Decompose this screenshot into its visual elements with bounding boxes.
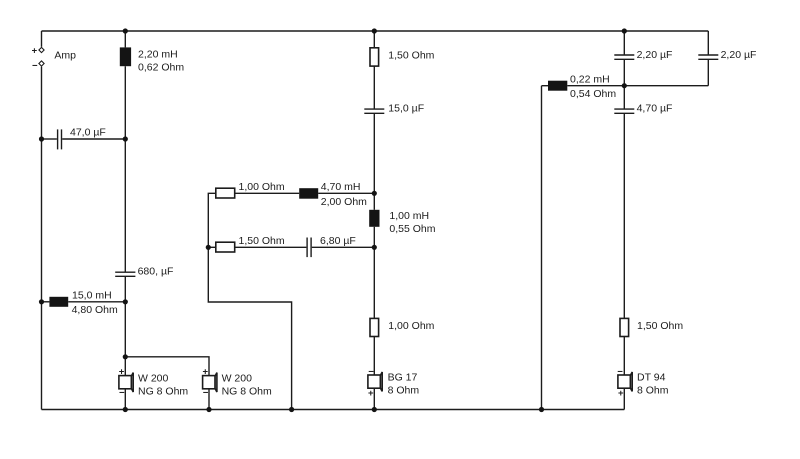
- svg-text:−: −: [203, 387, 209, 398]
- svg-text:−: −: [617, 366, 623, 377]
- svg-text:1,50 Ohm: 1,50 Ohm: [239, 235, 285, 247]
- svg-text:W 200: W 200: [222, 372, 253, 384]
- svg-text:0,54 Ohm: 0,54 Ohm: [570, 88, 616, 100]
- svg-text:NG 8 Ohm: NG 8 Ohm: [222, 385, 272, 397]
- svg-text:6,80 µF: 6,80 µF: [320, 235, 356, 247]
- svg-text:+: +: [618, 388, 624, 399]
- svg-text:+: +: [368, 388, 374, 399]
- svg-text:0,22 mH: 0,22 mH: [570, 74, 610, 86]
- svg-text:2,20 mH: 2,20 mH: [138, 48, 178, 60]
- svg-text:8 Ohm: 8 Ohm: [637, 385, 669, 397]
- svg-text:1,00 mH: 1,00 mH: [389, 210, 429, 222]
- svg-text:+: +: [119, 367, 125, 378]
- svg-text:15,0 mH: 15,0 mH: [72, 289, 112, 301]
- svg-text:47,0 µF: 47,0 µF: [70, 127, 106, 139]
- svg-text:1,00 Ohm: 1,00 Ohm: [239, 181, 285, 193]
- svg-text:0,55 Ohm: 0,55 Ohm: [389, 223, 435, 235]
- svg-text:−: −: [119, 387, 125, 398]
- svg-text:BG 17: BG 17: [388, 372, 418, 384]
- svg-text:2,00 Ohm: 2,00 Ohm: [321, 196, 367, 208]
- svg-text:W 200: W 200: [138, 372, 169, 384]
- svg-text:1,50 Ohm: 1,50 Ohm: [637, 320, 683, 332]
- svg-text:2,20 µF: 2,20 µF: [721, 49, 757, 61]
- svg-text:NG 8 Ohm: NG 8 Ohm: [138, 385, 188, 397]
- svg-text:−: −: [32, 61, 38, 72]
- svg-text:2,20 µF: 2,20 µF: [637, 49, 673, 61]
- svg-text:1,50 Ohm: 1,50 Ohm: [388, 50, 434, 62]
- svg-text:+: +: [203, 367, 209, 378]
- svg-text:15,0 µF: 15,0 µF: [388, 103, 424, 115]
- svg-text:+: +: [32, 46, 38, 57]
- svg-text:680, µF: 680, µF: [138, 266, 174, 278]
- svg-text:−: −: [368, 366, 374, 377]
- svg-text:4,70 µF: 4,70 µF: [637, 103, 673, 115]
- svg-text:Amp: Amp: [54, 50, 76, 62]
- svg-text:DT 94: DT 94: [637, 372, 666, 384]
- svg-text:1,00 Ohm: 1,00 Ohm: [388, 320, 434, 332]
- svg-text:8 Ohm: 8 Ohm: [388, 385, 420, 397]
- svg-text:4,70 mH: 4,70 mH: [321, 181, 361, 193]
- svg-text:4,80 Ohm: 4,80 Ohm: [72, 304, 118, 316]
- svg-text:0,62 Ohm: 0,62 Ohm: [138, 62, 184, 74]
